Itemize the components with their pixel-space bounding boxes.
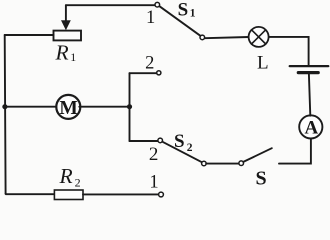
battery positive plate (long thin)	[290, 65, 329, 67]
svg-text:L: L	[257, 52, 269, 73]
svg-text:2: 2	[149, 144, 159, 165]
label R1	[55, 40, 77, 64]
wire lamp to S1 contact	[205, 37, 249, 38]
switch S1 lower contact	[200, 35, 205, 40]
terminal 1 bottom contact	[159, 192, 164, 197]
svg-text:A: A	[305, 117, 319, 138]
wire between S2 contact and S pivot	[206, 163, 239, 165]
svg-text:1: 1	[190, 8, 196, 20]
wire from R1 left end to left rail	[5, 34, 54, 36]
wire motor right segment	[79, 106, 129, 108]
rheostat R1 slider arrow	[62, 5, 71, 29]
battery negative plate (short thick)	[298, 71, 318, 74]
switch S2 blade	[162, 142, 202, 163]
switch S2 contact	[202, 161, 207, 166]
resistor R2 body	[54, 190, 83, 200]
wire from S fixed contact to ammeter	[279, 138, 311, 163]
svg-text:R: R	[59, 164, 73, 188]
switch S blade (open)	[243, 148, 271, 162]
terminal 2 lower contact	[158, 138, 163, 143]
motor M	[56, 95, 80, 119]
wire ammeter to battery	[309, 74, 310, 116]
wire to lower terminal 2	[130, 140, 158, 142]
wire left rail	[4, 35, 7, 194]
junction left	[2, 104, 7, 109]
svg-text:R: R	[55, 40, 69, 64]
lamp L	[249, 27, 269, 47]
svg-text:M: M	[59, 98, 77, 119]
wire to upper terminal 2	[130, 72, 157, 74]
wire motor left segment	[5, 106, 57, 108]
label S2	[174, 131, 193, 154]
wire R2 to terminal 1	[83, 193, 159, 195]
svg-text:S: S	[178, 0, 189, 20]
junction right	[127, 104, 132, 109]
label S1	[178, 0, 196, 20]
wire bottom rail	[6, 193, 55, 195]
svg-text:2: 2	[187, 142, 193, 154]
svg-text:S: S	[255, 168, 266, 190]
ammeter A	[299, 115, 322, 138]
wire battery to lamp corner	[269, 37, 309, 65]
switch S1 blade (closed)	[159, 6, 200, 36]
label R2	[59, 164, 81, 189]
switch S pivot	[239, 161, 244, 166]
wire vertical branch between terminals 2	[129, 73, 131, 141]
svg-text:1: 1	[146, 8, 155, 28]
wire top rail from R1 slider to S1 terminal	[66, 4, 155, 6]
terminal 2 upper contact	[157, 71, 161, 75]
svg-text:1: 1	[149, 173, 158, 193]
svg-text:2: 2	[145, 54, 154, 74]
svg-text:S: S	[174, 131, 185, 152]
svg-text:2: 2	[75, 175, 81, 189]
rheostat R1 body	[54, 31, 82, 41]
switch S1 terminal 1	[155, 2, 160, 7]
svg-text:1: 1	[70, 50, 76, 64]
